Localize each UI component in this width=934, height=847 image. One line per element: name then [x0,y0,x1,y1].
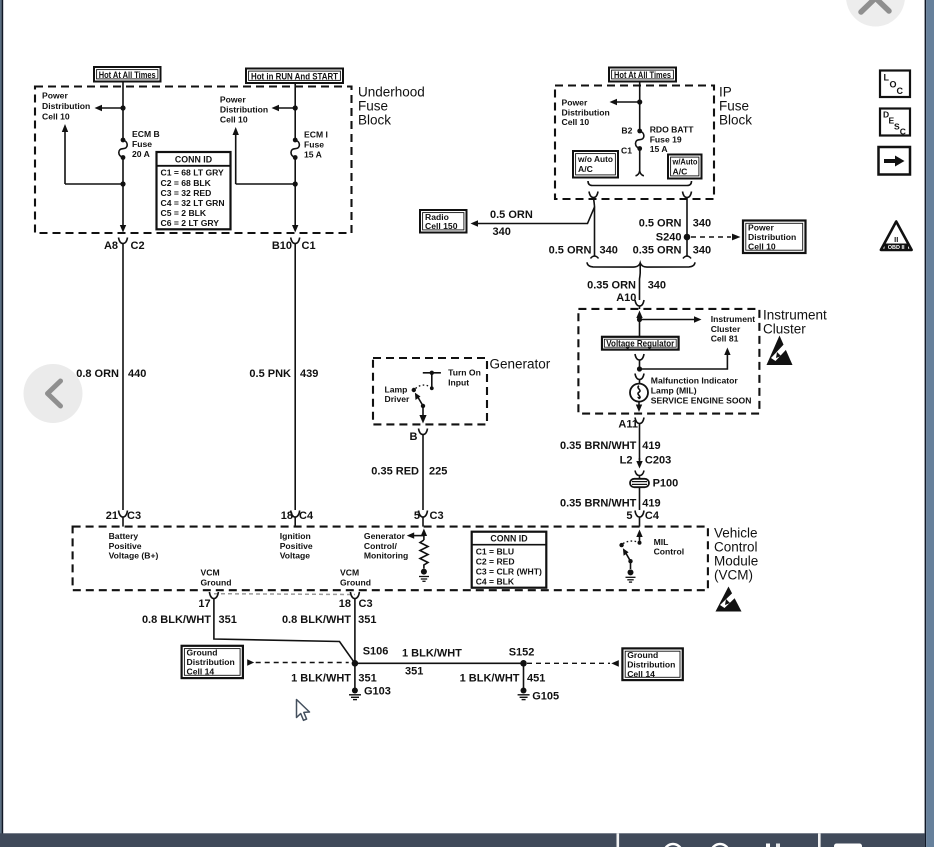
label 21 C3 [106,510,141,522]
svg-text:Underhood: Underhood [358,85,425,100]
right window edge strip [925,0,934,847]
svg-text:351: 351 [219,614,237,626]
svg-text:C: C [897,86,904,96]
svg-text:Hot At All Times: Hot At All Times [614,70,671,80]
svg-text:Ground: Ground [201,577,232,587]
svg-text:0.5 ORN: 0.5 ORN [549,245,592,257]
wire: up-arrow branch to cell 10 [62,124,123,184]
svg-text:Hot At All Times: Hot At All Times [99,70,156,80]
wire: left IP output down to merge bracket [594,206,596,256]
svg-text:Monitoring: Monitoring [364,551,408,561]
wire: pin 17 to S106 [214,608,355,663]
svg-text:Control: Control [714,540,758,555]
connector fork VCM pin 5 C4 [635,511,644,527]
svg-text:A/C: A/C [673,166,688,176]
label 0.5 PNK 439 [249,368,318,380]
MIL control switch blade [623,548,633,563]
svg-text:1 BLK/WHT: 1 BLK/WHT [291,673,351,685]
node: tap to power distribution (IP) [637,99,642,104]
svg-text:Cluster: Cluster [711,324,741,334]
svg-text:C1 = 68 LT GRY: C1 = 68 LT GRY [161,168,225,178]
svg-text:C4: C4 [645,510,660,522]
svg-text:CONN ID: CONN ID [175,154,212,164]
svg-text:w/o Auto: w/o Auto [577,154,613,164]
svg-text:B2: B2 [621,125,632,135]
svg-text:5: 5 [414,510,420,522]
svg-text:C1: C1 [302,240,316,252]
VCM label [714,526,758,583]
node S106 [352,660,359,667]
label 0.35 BRN/WHT 419 (upper) [560,440,661,452]
svg-text:15 A: 15 A [650,144,668,154]
wire: B10 down to VCM pin 18 [294,250,296,510]
svg-text:15 A: 15 A [304,149,322,159]
svg-text:A/C: A/C [578,164,593,174]
CONN ID table (VCM) [472,532,547,588]
svg-text:VCM: VCM [201,568,220,578]
wire: arrow right to Instrument Cluster Cell 81 [640,316,702,322]
label: Ignition Positive Voltage [280,531,313,561]
ESD warning triangle (VCM) [716,587,742,612]
wire: generator B down to VCM pin 5 [422,440,424,510]
svg-text:Control/: Control/ [364,541,398,551]
svg-text:Distribution: Distribution [42,101,90,111]
switch motion dotted arc [416,385,431,388]
svg-text:Lamp (MIL): Lamp (MIL) [651,385,697,395]
svg-text:0.35 RED: 0.35 RED [371,466,419,478]
label 0.35 BRN/WHT 419 (lower) [560,498,661,510]
svg-text:L2: L2 [620,454,633,466]
svg-text:(VCM): (VCM) [714,568,753,583]
svg-text:340: 340 [493,226,511,238]
label 18 C4 (VCM top) [281,510,314,522]
Hot in RUN And START label box [246,69,343,84]
connector A11 fork [635,418,644,431]
svg-text:MIL: MIL [654,537,669,547]
svg-text:Fuse 19: Fuse 19 [650,134,682,144]
connector A10 fork [635,300,644,309]
wire: S106 to S152 [355,662,524,664]
prev (chevron-left) nav button [24,364,83,423]
Voltage Regulator box [602,337,679,350]
label: Power Distribution Cell 10 (underhood left) [42,91,90,122]
MIL control switch dotted arc [623,541,638,543]
svg-text:Fuse: Fuse [719,99,749,114]
svg-text:0.5 PNK: 0.5 PNK [249,368,291,380]
connector fork VCM pin 21 C3 [119,511,128,527]
svg-text:Ground: Ground [187,648,218,658]
label RDO BATT Fuse 19 15 A [650,125,695,155]
svg-text:C3 = 32 RED: C3 = 32 RED [161,188,212,198]
connector fork below voltage regulator [635,354,644,369]
svg-text:C4: C4 [299,510,314,522]
wire: hot feed to RDO BATT fuse [639,82,641,131]
label 0.8 BLK/WHT 351 (pin 17) [142,614,237,626]
svg-text:Cell 10: Cell 10 [748,242,776,252]
svg-text:II: II [894,235,898,244]
close (chevron-up) button top right [846,0,905,27]
svg-text:0.35 BRN/WHT: 0.35 BRN/WHT [560,498,637,510]
svg-text:B10: B10 [272,240,292,252]
fuse ECM I 15A [291,138,299,160]
dashed wire: S152 to ground distribution (right), arrow [527,660,619,667]
LOC button [880,71,910,98]
label 0.8 ORN 440 [76,368,146,380]
svg-text:Driver: Driver [385,394,410,404]
DESC button [880,109,910,137]
svg-text:C3: C3 [430,510,444,522]
svg-text:A10: A10 [616,292,636,304]
label 5 C4 [626,510,659,522]
wire: hot feed to ECM I fuse [294,83,296,139]
svg-text:Power: Power [748,223,774,233]
OBD II warning triangle icon [881,222,912,252]
label 1 BLK/WHT 351 (S106-S152) [402,648,462,678]
svg-text:17: 17 [198,598,210,610]
internal ground (MIL control) [626,561,636,582]
label 0.35 ORN 340 (merged) [587,280,666,292]
svg-text:Module: Module [714,554,758,569]
svg-text:340: 340 [600,245,618,257]
svg-text:340: 340 [693,218,711,230]
label: Generator Control/ Monitoring [364,531,408,561]
svg-text:SERVICE ENGINE SOON: SERVICE ENGINE SOON [651,396,752,406]
wire: up-arrow branch to cell 10 (right) [233,127,296,184]
svg-text:C1 = BLU: C1 = BLU [476,547,514,557]
svg-text:Cell 81: Cell 81 [711,334,739,344]
generator monitoring input: up arrow + left arrow [407,529,427,541]
svg-text:0.8 ORN: 0.8 ORN [76,368,119,380]
label 1 BLK/WHT 451 [460,673,546,685]
IP fuse block box [555,86,714,200]
IP fuse block label [719,85,752,128]
svg-text:Voltage (B+): Voltage (B+) [109,551,159,561]
svg-text:S240: S240 [656,231,682,243]
svg-text:G103: G103 [364,686,391,698]
svg-text:Cell 10: Cell 10 [220,114,248,124]
left window edge strip [0,0,3,847]
underhood fuse block label [358,85,425,128]
label: ECM I Fuse 15 A [304,129,328,159]
ground G103 [349,663,361,699]
wire: fuse down to connector A8, arrow at box edge [120,158,126,233]
svg-text:0.5 ORN: 0.5 ORN [490,209,533,221]
svg-text:C3 = CLR (WHT): C3 = CLR (WHT) [476,567,542,577]
svg-text:IP: IP [719,85,732,100]
svg-text:440: 440 [128,368,146,380]
connector fork VCM pin 17 (bottom) [209,592,218,608]
label 0.5 ORN 340 (right wire) [639,218,711,230]
wire: fuse output stub with flare [636,149,644,176]
wire: lamp down, arrow at box edge [636,402,642,412]
svg-text:Fuse: Fuse [358,99,388,114]
mouse cursor [297,700,310,721]
label: Power Distribution Cell 10 (IP) [562,98,610,128]
label A8 C2 [104,240,145,252]
label Turn On Input [448,368,481,388]
svg-text:Distribution: Distribution [627,660,675,670]
svg-text:P100: P100 [653,478,679,490]
node S152 [520,660,527,667]
svg-text:C4 = 32 LT GRN: C4 = 32 LT GRN [161,198,225,208]
svg-text:18: 18 [339,598,351,610]
svg-text:Cluster: Cluster [763,322,806,337]
svg-text:C203: C203 [645,454,671,466]
svg-text:5: 5 [626,510,632,522]
svg-text:ECM I: ECM I [304,129,328,139]
Hot At All Times label box 2 [609,68,676,82]
wire: A10 into cluster, up arrow [636,311,642,337]
svg-text:0.35 BRN/WHT: 0.35 BRN/WHT [560,440,637,452]
label: ECM B Fuse 20 A [132,129,160,159]
svg-text:C: C [900,126,906,136]
svg-text:Distribution: Distribution [562,107,610,117]
svg-text:0.8 BLK/WHT: 0.8 BLK/WHT [142,614,211,626]
node: tap to power distribution (right) [293,105,298,110]
svg-text:0.35 ORN: 0.35 ORN [633,245,682,257]
connector fork VCM pin 5 C3 [419,511,428,527]
fuse ECM B 20A [119,138,127,160]
wire: pin 18 to S106 [354,608,356,663]
svg-text:Vehicle: Vehicle [714,526,758,541]
Hot At All Times label box 1 [94,67,161,82]
wire: lamp driver output down, arrow at box edge [419,406,426,424]
connector A8/C2 fork [119,238,128,251]
svg-text:S152: S152 [509,647,535,659]
merge brace (two wires into one) [587,262,695,267]
svg-text:Generator: Generator [364,531,406,541]
svg-text:Block: Block [358,113,391,128]
node S240 [684,234,691,241]
gray linking dashed line between pins 17 and 18 [214,593,355,596]
svg-text:C5 = 2 BLK: C5 = 2 BLK [161,208,207,218]
svg-text:Ignition: Ignition [280,531,311,541]
label 18 C3 (bottom) [339,598,373,610]
label 0.35 ORN 340 (below S240) [633,245,712,257]
generator box [373,358,487,424]
svg-text:Battery: Battery [109,531,139,541]
CONN ID table (underhood) [157,152,231,229]
wire: hot feed to ECM B fuse [122,82,124,140]
svg-text:C4 = BLK: C4 = BLK [476,577,515,587]
svg-text:Cell 14: Cell 14 [187,667,215,677]
svg-text:Input: Input [448,377,469,387]
label Lamp Driver [385,384,410,404]
connector fork VCM pin 18 C4 [291,511,300,527]
svg-text:0.35 ORN: 0.35 ORN [587,280,636,292]
connector bus bracket (IP outputs) [588,181,692,186]
svg-text:Cell 10: Cell 10 [562,117,590,127]
connector B fork [419,429,428,441]
label VCM Ground (pin 17) [201,568,232,588]
wire: arrow to Power Distribution Cell 10 (right) [272,105,296,111]
svg-text:21: 21 [106,510,118,522]
svg-text:C6 = 2 LT GRY: C6 = 2 LT GRY [161,218,220,228]
connector B10/C1 fork [291,238,300,251]
label L2 C203 [620,454,672,466]
connector fork VCM pin 18 C3 (bottom) [350,592,359,608]
ground G105 [518,663,530,699]
Ground Distribution Cell 14 box (right) [622,648,682,680]
label: Power Distribution Cell 10 (underhood right) [220,94,268,124]
svg-text:Cell 150: Cell 150 [425,221,458,231]
svg-text:Cell 14: Cell 14 [627,669,655,679]
svg-text:Distribution: Distribution [748,232,796,242]
svg-text:351: 351 [358,614,376,626]
label: Instrument Cluster Cell 81 [711,314,756,344]
svg-text:RDO BATT: RDO BATT [650,125,695,135]
svg-text:A8: A8 [104,240,118,252]
svg-text:Lamp: Lamp [385,384,408,394]
svg-text:Instrument: Instrument [763,308,827,323]
svg-text:C2: C2 [131,240,145,252]
svg-text:Fuse: Fuse [132,139,152,149]
resistor (VCM internal) [420,540,428,569]
svg-text:VCM: VCM [340,568,359,578]
label B10 C1 [272,240,316,252]
svg-text:340: 340 [648,280,666,292]
svg-text:Cell 10: Cell 10 [42,112,70,122]
wire: arrow to Power Distribution Cell 10 (IP) [610,99,640,105]
svg-text:Power: Power [220,94,246,104]
svg-text:Generator: Generator [490,357,551,372]
grommet P100 [630,479,649,487]
svg-text:Positive: Positive [109,541,142,551]
MIL control switch pivot [619,543,623,547]
connector C203: down arrow + fork [635,458,644,479]
wire: arrow to Power Distribution Cell 10 [95,105,124,111]
svg-text:C1: C1 [621,145,632,155]
MIL lamp symbol [630,384,648,402]
svg-text:1 BLK/WHT: 1 BLK/WHT [460,673,520,685]
svg-text:CONN ID: CONN ID [490,534,527,544]
w/Auto A/C box [668,155,702,179]
svg-text:Hot in RUN And START: Hot in RUN And START [251,71,339,81]
VCM box [73,527,708,591]
svg-text:Ground: Ground [627,650,658,660]
svg-text:351: 351 [405,666,423,678]
wire: P100 down to VCM pin 5 [639,487,641,510]
wire: dashed to Power Distribution Cell 10 (S240) [691,234,741,241]
svg-text:Distribution: Distribution [220,104,268,114]
svg-text:18: 18 [281,510,293,522]
wire: right IP output down to merge bracket [686,206,688,256]
svg-text:C2 = RED: C2 = RED [476,557,515,567]
svg-text:Malfunction Indicator: Malfunction Indicator [651,376,739,386]
svg-text:C2 = 68 BLK: C2 = 68 BLK [161,178,212,188]
svg-text:225: 225 [429,466,447,478]
instrument cluster box [578,309,759,414]
label: Malfunction Indicator Lamp (MIL) SERVICE ENGINE SOON [651,376,752,406]
internal ground (generator monitor) [419,569,429,582]
node: junction at branch bottom (right) [293,181,298,186]
w/o Auto A/C box [573,151,618,178]
svg-text:B: B [410,431,418,443]
svg-text:419: 419 [642,498,660,510]
svg-text:Voltage: Voltage [280,551,311,561]
label 5 C3 (generator pin) [414,510,444,522]
node: junction at bottom of branch [120,181,125,186]
instrument cluster label [763,308,827,337]
svg-text:0.8 BLK/WHT: 0.8 BLK/WHT [282,614,351,626]
label 0.5 ORN 340 (radio branch) [490,209,533,238]
wire: A11 down to C203 [639,430,641,460]
svg-text:A11: A11 [618,419,638,431]
svg-text:439: 439 [300,368,318,380]
Power Distribution Cell 10 box (S240) [743,221,806,254]
svg-text:Fuse: Fuse [304,139,324,149]
connector fork (w/o auto a/c output) [589,192,598,207]
Ground Distribution Cell 14 box (left) [182,646,243,678]
turn-on input T symbol [423,371,441,391]
svg-text:419: 419 [642,440,660,452]
bottom toolbar [0,833,925,847]
svg-text:C3: C3 [359,598,373,610]
ESD warning triangle (instrument cluster) [767,336,793,366]
label VCM Ground (pin 18) [340,568,371,588]
svg-text:Voltage Regulator: Voltage Regulator [606,338,675,348]
svg-text:C3: C3 [127,510,141,522]
connector fork above MIL lamp [635,374,644,384]
label 0.5 ORN 340 (left wire) [549,245,618,257]
svg-text:Block: Block [719,113,752,128]
svg-text:Distribution: Distribution [187,657,235,667]
svg-text:Control: Control [654,547,685,557]
label MIL Control [654,537,685,557]
svg-text:OBD II: OBD II [888,245,905,251]
wire: right and up arrow to cell 81 [640,348,731,370]
fuse RDO BATT 15A [636,129,644,151]
svg-text:w/Auto: w/Auto [672,156,698,166]
svg-text:Ground: Ground [340,577,371,587]
label 1 BLK/WHT 351 (G103 drop) [291,673,377,685]
svg-text:Instrument: Instrument [711,314,756,324]
wire: A8 down to VCM pin 21 [122,250,124,510]
svg-text:Power: Power [562,98,588,108]
wire: branch to Radio Cell 150 [471,207,595,227]
label 0.8 BLK/WHT 351 (pin 18) [282,614,377,626]
wire: merged down to A10 [639,264,642,301]
MIL control: up arrow [636,530,642,545]
svg-text:0.5 ORN: 0.5 ORN [639,218,682,230]
svg-text:Turn On: Turn On [448,368,481,378]
next-arrow button [879,147,911,175]
svg-text:1 BLK/WHT: 1 BLK/WHT [402,648,462,660]
connector fork (w/auto a/c output) [683,192,692,207]
svg-text:O: O [890,80,897,90]
node: tap to cell81 feedback [637,366,642,371]
switch blade with arrow [415,393,425,408]
svg-text:351: 351 [358,673,376,685]
wire: fuse down to connector B10, arrow at box edge [292,158,298,233]
dashed wire: ground distribution to S106, arrow [247,659,349,665]
svg-text:20 A: 20 A [132,149,150,159]
svg-text:S106: S106 [363,646,389,658]
node: tap to cell 81 arrow [637,317,642,322]
label 0.35 RED 225 [371,466,447,478]
svg-text:Positive: Positive [280,541,313,551]
svg-text:Power: Power [42,91,68,101]
svg-text:340: 340 [693,245,711,257]
label: Battery Positive Voltage (B+) [109,531,159,561]
node: tap to power distribution (left) [120,105,125,110]
svg-text:G105: G105 [532,691,559,703]
underhood fuse block box [35,87,352,234]
svg-text:451: 451 [527,673,545,685]
Radio Cell 150 box [420,210,467,233]
switch pivot node [412,388,416,392]
svg-text:ECM B: ECM B [132,129,160,139]
